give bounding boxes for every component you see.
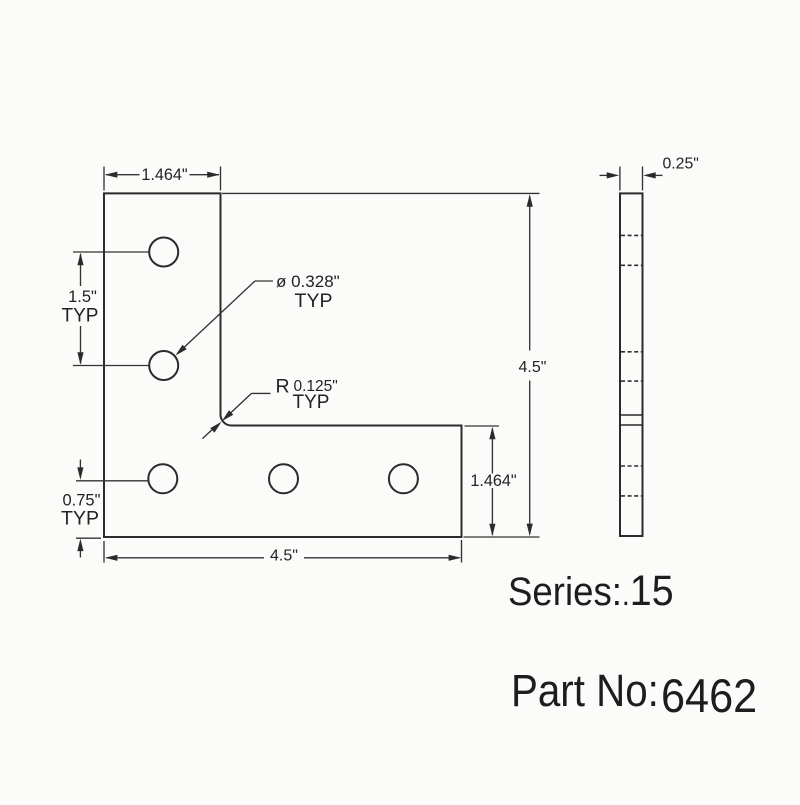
svg-text:R: R — [276, 376, 290, 398]
svg-text:ø 0.328": ø 0.328" — [276, 272, 340, 291]
svg-text:4.5": 4.5" — [519, 359, 547, 376]
svg-text:1.464": 1.464" — [470, 472, 517, 490]
svg-text:1.464": 1.464" — [141, 166, 188, 184]
svg-text:0.25": 0.25" — [663, 156, 699, 173]
svg-text:1.5": 1.5" — [68, 288, 97, 306]
svg-text:TYP: TYP — [295, 290, 333, 312]
svg-text:4.5": 4.5" — [270, 548, 298, 565]
svg-text:TYP: TYP — [61, 508, 99, 530]
svg-text:TYP: TYP — [62, 305, 99, 326]
svg-text:TYP: TYP — [293, 392, 330, 413]
